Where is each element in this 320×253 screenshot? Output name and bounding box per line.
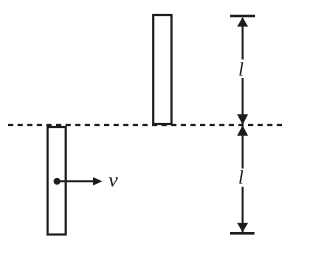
arrowhead up below dotted line xyxy=(237,125,248,135)
label v xyxy=(109,177,118,186)
dotted reference line xyxy=(8,124,283,126)
arrowhead down at bottom bar xyxy=(237,223,248,232)
dimension top bar xyxy=(230,15,255,18)
dot on lower rod xyxy=(54,178,61,185)
dimension upper segment line (below label) xyxy=(242,78,244,124)
velocity arrow shaft xyxy=(57,180,94,182)
label l upper xyxy=(239,62,243,76)
arrowhead down at dotted line (upper) xyxy=(237,114,248,125)
dimension upper segment line (above label) xyxy=(242,18,244,60)
upper rod xyxy=(153,15,171,124)
lower rod xyxy=(48,127,66,235)
dimension lower segment line (below label) xyxy=(242,187,244,232)
dimension lower segment line (above label) xyxy=(242,126,244,169)
label l lower xyxy=(239,170,243,184)
velocity arrowhead xyxy=(93,177,102,185)
arrowhead up at top bar xyxy=(237,17,248,26)
dimension bottom bar xyxy=(230,232,255,235)
